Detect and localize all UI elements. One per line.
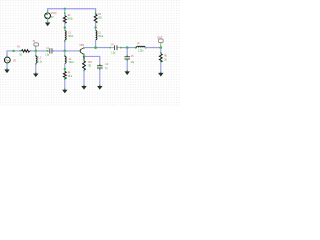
R5 name label [98, 12, 101, 16]
svg-text:1.25n: 1.25n [138, 48, 144, 52]
svg-text:28.5k: 28.5k [67, 16, 73, 20]
svg-text:C1: C1 [46, 46, 49, 50]
wire C5 to ground [126, 59, 128, 71]
resistor R4 [63, 71, 66, 79]
R4 name label [68, 71, 71, 75]
R2 name label [68, 13, 71, 17]
C2 value label [105, 66, 108, 70]
capacitor C1 [47, 48, 54, 53]
wire rail to R2 [64, 9, 66, 16]
L5 name label [98, 31, 101, 35]
wire emitter to C2 [84, 56, 101, 65]
svg-text:C4: C4 [111, 42, 114, 46]
wire R3 to ground [83, 70, 85, 87]
node C4 right pin [120, 47, 122, 49]
ground (V5) [4, 70, 9, 74]
node base junction [64, 50, 67, 53]
voltage source VCC [45, 12, 51, 20]
C4 name label [111, 42, 114, 46]
wire VCC to ground [47, 19, 49, 23]
wire base node to L4 [64, 51, 66, 57]
resistor R2 [63, 16, 66, 24]
svg-text:1.5p: 1.5p [45, 53, 49, 57]
wire top rail VCC to R5 [48, 8, 96, 10]
wire rail corner to R5 [95, 9, 97, 15]
R3 value label [88, 64, 92, 68]
L4 name label [69, 57, 72, 61]
port OUT [159, 39, 164, 47]
VCC name label [51, 11, 57, 15]
wire input source corner [7, 51, 21, 57]
R5 value label [98, 15, 102, 19]
R1 name label [17, 45, 20, 49]
VCC value label [51, 15, 54, 19]
R6 name label [164, 54, 167, 58]
C5 value label [131, 60, 135, 64]
node R2/L3 junction [64, 26, 66, 28]
ground (VCC) [45, 22, 50, 27]
wire OUT node to R6 [160, 48, 162, 54]
svg-text:L6: L6 [137, 41, 140, 45]
wire C4 to C5 node [121, 47, 137, 49]
L3 value label [68, 34, 73, 38]
node C5 junction [126, 46, 129, 49]
wire emitter down [83, 54, 85, 56]
R2 value label [67, 16, 73, 20]
svg-text:14p: 14p [131, 60, 135, 64]
C1 value label [45, 53, 49, 57]
capacitor C4 [110, 45, 121, 50]
svg-text:56nH: 56nH [98, 34, 103, 38]
C5 name label [131, 54, 134, 58]
node C4 left pin [109, 47, 111, 49]
capacitor C2 [97, 65, 103, 68]
L4 value label [69, 60, 74, 64]
svg-text:56nH: 56nH [68, 34, 73, 38]
ground (C5) [125, 71, 130, 75]
node emitter junction [83, 55, 85, 57]
Q1 name label [80, 44, 85, 47]
V5 name label [13, 58, 16, 62]
inductor L5 [96, 31, 97, 40]
wire IN node to L2 [35, 51, 37, 57]
resistor R3 [83, 56, 86, 70]
wire R6 to ground [160, 61, 162, 73]
resistor R6 [159, 54, 162, 63]
P1 name label [33, 39, 36, 43]
ground (R6) [158, 73, 163, 77]
svg-text:1.2n: 1.2n [38, 60, 42, 64]
wire R2 to L3 [64, 23, 66, 31]
wire L2 to ground [35, 63, 37, 74]
port P1 IN [34, 43, 39, 50]
OUT name label [157, 35, 163, 39]
L6 value label [138, 48, 144, 52]
node collector/L5 junction [94, 46, 97, 49]
node OUT junction [160, 46, 163, 49]
L6 name label [137, 41, 140, 45]
L5 value label [98, 34, 103, 38]
svg-text:P1: P1 [33, 39, 36, 43]
inductor L3 [65, 31, 66, 40]
node L4/R4 junction [64, 68, 66, 70]
wire VCC stub [47, 8, 49, 13]
node rail/R2 junction [64, 8, 66, 10]
wire collector line [84, 47, 111, 49]
wire C2 to ground [99, 68, 101, 86]
wire R5 to L5 [95, 22, 97, 31]
ground (R3) [81, 86, 86, 90]
C4 value label [111, 51, 115, 55]
R4 value label [68, 74, 73, 78]
ground (L2) [33, 74, 38, 78]
node R5/L5 junction [94, 26, 96, 28]
C1 name label [46, 46, 49, 50]
wire L6 to OUT node [145, 47, 161, 49]
resistor R5 [94, 14, 97, 23]
node IN junction [35, 50, 38, 53]
ground (R4) [62, 90, 67, 94]
wire C5 node down [126, 48, 128, 57]
transistor Q1 [79, 47, 85, 55]
svg-text:50: 50 [164, 58, 167, 62]
capacitor C5 [124, 56, 130, 59]
L2 name label [39, 55, 42, 59]
svg-text:50: 50 [20, 52, 23, 56]
svg-text:1.5p: 1.5p [111, 51, 115, 55]
svg-text:500: 500 [98, 15, 102, 19]
ground (C2) [97, 86, 102, 90]
svg-text:7p: 7p [105, 66, 108, 70]
R1 value label [20, 52, 23, 56]
svg-text:C5: C5 [131, 54, 134, 58]
R3 name label [88, 60, 92, 64]
wire R1 to IN node [30, 50, 50, 52]
R6 value label [164, 58, 167, 62]
inductor L2 [36, 56, 37, 63]
C2 name label [106, 62, 109, 66]
svg-text:56nH: 56nH [69, 60, 74, 64]
svg-text:56.2: 56.2 [68, 74, 73, 78]
svg-text:OUT: OUT [157, 35, 163, 39]
svg-text:NPN4: NPN4 [80, 44, 85, 47]
wire C1 to base node [52, 50, 80, 52]
svg-text:750: 750 [88, 64, 92, 68]
wire L3 to base node [64, 40, 66, 51]
wire L4 to R4 [64, 63, 66, 71]
voltage source V5 [4, 56, 10, 65]
svg-text:V5: V5 [13, 58, 16, 62]
L3 name label [68, 31, 71, 35]
svg-text:5V: 5V [51, 15, 54, 19]
L2 value label [38, 60, 42, 64]
inductor L6 [135, 46, 147, 48]
wire L5 to collector node [95, 40, 97, 48]
node input wire junction [12, 50, 14, 52]
wire V5 to ground [6, 63, 8, 69]
wire R4 to ground [64, 77, 66, 90]
inductor L4 [65, 57, 66, 64]
svg-text:R1: R1 [17, 45, 20, 49]
resistor R1 [19, 50, 31, 52]
